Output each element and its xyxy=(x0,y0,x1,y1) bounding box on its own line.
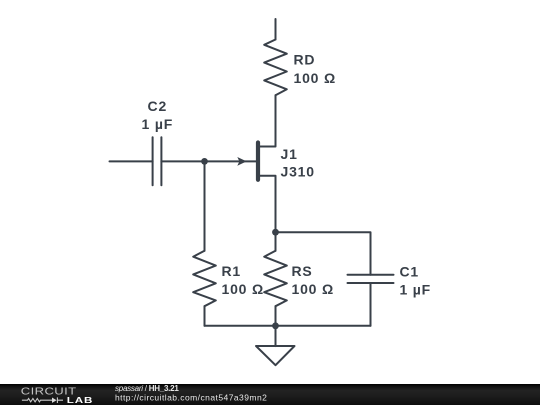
svg-text:1 µF: 1 µF xyxy=(142,116,174,132)
wire RD to drain xyxy=(260,95,276,146)
wire bottom rail xyxy=(205,325,371,327)
capacitor C1 xyxy=(348,275,394,283)
node gate junction xyxy=(201,158,208,165)
svg-text:1 µF: 1 µF xyxy=(400,281,432,297)
wire R1 branch down xyxy=(204,161,206,250)
svg-text:http://circuitlab.com/cnat547a: http://circuitlab.com/cnat547a39mn2 xyxy=(115,393,267,403)
wire R1 to bottom rail xyxy=(204,306,206,326)
svg-text:100 Ω: 100 Ω xyxy=(292,281,334,297)
svg-text:LAB: LAB xyxy=(67,396,93,405)
svg-text:RD: RD xyxy=(294,51,316,67)
svg-text:100 Ω: 100 Ω xyxy=(222,281,264,297)
svg-text:R1: R1 xyxy=(222,263,242,279)
logo squiggle resistor xyxy=(22,399,52,402)
wire supply to RD xyxy=(275,19,277,40)
svg-text:J310: J310 xyxy=(281,163,315,179)
svg-text:100 Ω: 100 Ω xyxy=(294,70,336,86)
wire C1 bottom to rail xyxy=(370,283,372,326)
resistor RS xyxy=(264,251,287,307)
wire node to C1 top xyxy=(276,232,371,275)
svg-text:C1: C1 xyxy=(400,263,420,279)
capacitor C2 xyxy=(153,137,162,185)
wire RS top branch xyxy=(275,232,277,251)
node ground junction xyxy=(272,322,279,329)
svg-text:J1: J1 xyxy=(281,146,298,162)
footer bar xyxy=(0,384,540,405)
transistor J1 gate arrow xyxy=(237,157,246,166)
wire C2 to gate xyxy=(161,160,256,162)
svg-text:spassari / HH_3.21: spassari / HH_3.21 xyxy=(115,384,179,393)
node source junction xyxy=(272,229,279,236)
wire RS to bottom rail xyxy=(275,306,277,326)
logo diode bar xyxy=(57,397,63,403)
resistor RD xyxy=(264,40,287,96)
transistor J1 channel bar xyxy=(256,143,260,180)
wire input to C2 xyxy=(110,160,153,162)
svg-text:RS: RS xyxy=(292,263,313,279)
wire to ground xyxy=(275,326,277,346)
svg-text:C2: C2 xyxy=(148,98,168,114)
logo diode xyxy=(52,398,57,403)
wire source lead xyxy=(260,176,276,232)
ground xyxy=(256,346,295,365)
resistor R1 xyxy=(193,251,216,307)
